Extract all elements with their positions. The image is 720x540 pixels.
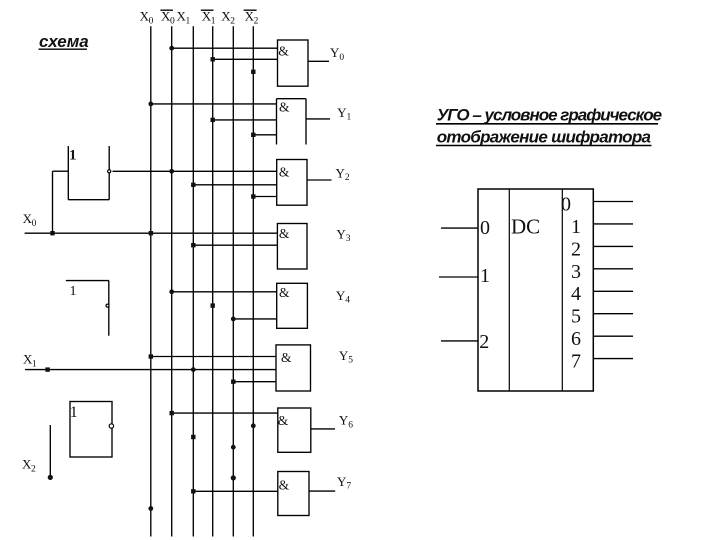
svg-text:3: 3 [346,234,351,244]
NOT gate DD2 output bubble [106,304,109,307]
svg-text:0: 0 [149,17,154,27]
wire Y3 input from X1 [193,244,277,246]
wire Y2 input from X1 [193,184,276,186]
label NOT X1 (bus) [202,9,216,27]
svg-text:1: 1 [186,17,191,27]
label X2 (bus) [221,9,235,27]
node Y1 input junction on X0 [148,102,153,107]
svg-text:1: 1 [480,265,490,287]
NOT gate DD2 label 1 [70,284,77,299]
wire Y0 output [308,60,329,62]
decoder output pin label 1 [571,216,581,238]
caption UGO line 2 [437,127,651,146]
wire X2 input vertical [49,425,51,477]
wire Y1 input from NOT-X1 [213,119,277,121]
wire Y5 input from X2 [233,381,276,383]
node dot on X1 at Y6 level [191,435,195,439]
svg-text:&: & [279,477,290,492]
svg-text:&: & [281,350,292,365]
wire X1 input horizontal [25,369,276,371]
bus wire NOT-X0 vertical [171,26,173,536]
AND gate Y4 symbol & [279,285,290,300]
AND gate Y1 symbol & [279,99,290,114]
NOT gate DD1 output bubble [108,170,111,173]
decoder output wire 2 [593,245,633,247]
svg-text:3: 3 [571,261,581,283]
decoder label DC [511,215,540,239]
node inverter3-NOTX2 bus dot [251,423,256,428]
decoder output wire 3 [593,268,633,270]
title "схема" [39,32,89,51]
label Y3 [336,227,350,245]
svg-text:УГО – условное графическое: УГО – условное графическое [437,106,662,125]
wire Y4 input from NOT-X0 [172,291,277,293]
svg-text:0: 0 [480,217,490,239]
wire Y1 output [306,118,330,120]
decoder output pin label 4 [571,283,581,305]
svg-text:&: & [278,413,289,428]
svg-text:1: 1 [211,17,216,27]
svg-text:0: 0 [339,53,344,63]
wire Y7 input from X1 [193,490,277,492]
wire inverter 1 input horizontal [53,170,69,172]
node Y1 input junction on NOT-X2 [251,133,255,137]
decoder output wire 0 [593,201,633,203]
AND gate Y2 symbol & [279,165,290,180]
AND gate Y2 box [277,160,307,206]
NOT gate DD3 output bubble [109,424,113,428]
node X1-bus junction [191,367,196,372]
svg-text:2: 2 [230,17,235,27]
label Y2 [336,166,350,184]
node Y5 input junction on X2 [231,380,235,384]
label Y0 [330,45,344,63]
node X2-bus dot [231,475,236,480]
svg-text:&: & [278,43,289,58]
svg-text:6: 6 [348,420,353,430]
bus wire X0 vertical [150,26,152,536]
decoder output wire 6 [593,335,633,337]
node dot on NOT-X2 at Y0 level [251,70,255,74]
decoder input pin label 1 [480,265,490,287]
node X2 input dot [48,475,53,480]
input label X2 [22,456,36,474]
label X1 (bus) [177,9,191,27]
node Y0 input junction on NOT-X0 [169,46,174,51]
svg-text:0: 0 [170,17,175,27]
AND gate Y6 box [278,408,311,452]
svg-text:&: & [279,285,290,300]
node Y6 input junction on NOT-X0 [170,411,174,415]
bus wire NOT-X2 vertical [252,26,254,536]
decoder input wire 1 [439,276,478,278]
decoder input pin label 0 [480,217,490,239]
decoder output pin label 7 [571,351,581,373]
AND gate Y5 box [276,345,311,391]
decoder output wire 4 [593,290,633,292]
node Y3 input junction on X1 [191,243,195,247]
AND gate Y3 symbol & [279,226,290,241]
decoder output pin label 3 [571,261,581,283]
svg-text:7: 7 [346,482,351,492]
overline of NOT X0 [160,9,173,11]
bus wire NOT-X1 vertical [212,26,214,536]
svg-text:схема: схема [39,32,89,51]
AND gate Y5 symbol & [281,350,292,365]
wire inverter 1 output to gate Y2 [113,170,277,172]
svg-text:2: 2 [571,238,581,260]
label NOT X2 (bus) [245,9,259,27]
AND gate Y4 box [277,283,308,328]
label NOT X0 (bus) [161,9,175,27]
wire Y1 input from X0 [151,103,277,105]
node Y4 input junction on NOT-X1 [211,303,215,307]
svg-text:1: 1 [347,113,352,123]
label X0 (bus) [140,9,154,27]
svg-text:DC: DC [511,215,540,239]
svg-text:2: 2 [254,17,259,27]
AND gate Y7 symbol & [279,477,290,492]
decoder input pin label 2 [479,331,489,353]
label Y1 [337,105,351,123]
overline of NOT X2 [244,9,257,11]
decoder input wire 0 [441,227,478,229]
wire Y2 output [307,179,332,181]
decoder DC outer box [478,189,593,391]
svg-text:4: 4 [345,296,350,306]
AND gate Y3 box [277,224,307,270]
node Y4 input junction on X2 [231,317,236,322]
svg-text:&: & [279,165,290,180]
decoder output wire 1 [593,223,633,225]
bus wire X2 vertical [232,26,234,536]
AND gate Y6 symbol & [278,413,289,428]
decoder input wire 2 [441,340,478,342]
svg-text:2: 2 [31,464,36,474]
wire X0 input horizontal [25,232,278,234]
title underline [39,48,88,50]
svg-text:отображение шифратора: отображение шифратора [437,127,651,146]
label Y7 [337,474,351,492]
node dot on X2 at Y6 level [231,445,236,450]
wire Y4 input from X2 [233,318,276,320]
node inverter1-NOTX0 bus junction [169,169,174,174]
label Y4 [336,288,350,306]
svg-text:1: 1 [69,148,77,164]
node Y4 input junction on NOT-X0 [169,289,174,294]
svg-text:&: & [279,99,290,114]
decoder output pin label 2 [571,238,581,260]
node X0-bus junction [149,231,153,235]
NOT gate DD2 (1) partial box [66,281,109,336]
svg-text:5: 5 [348,356,353,366]
bus wire X1 vertical [192,26,194,536]
wire Y1 input from NOT-X2 [253,134,276,136]
AND gate Y7 box [278,472,309,516]
NOT gate DD3 (1) box [70,402,112,458]
NOT gate DD1 label 1 [69,148,77,164]
node Y5 input junction on X0 [149,354,153,358]
node Y0 input junction on NOT-X1 [211,57,215,61]
decoder output wire 7 [593,358,633,360]
svg-text:1: 1 [70,284,77,299]
svg-text:1: 1 [70,404,78,421]
input label X0 [23,211,37,229]
node Y2 input junction on X1 [191,183,195,187]
node X1 input dot [45,367,49,371]
decoder output pin label 5 [571,306,581,328]
wire Y6 input from NOT-X0 [172,412,278,414]
AND gate Y0 symbol & [278,43,289,58]
wire Y0 input from NOT-X0 [172,47,278,49]
svg-text:7: 7 [571,351,581,373]
svg-text:0: 0 [32,219,37,229]
svg-text:6: 6 [571,328,581,350]
decoder output pin label 6 [571,328,581,350]
NOT gate DD3 label 1 [70,404,78,421]
svg-text:2: 2 [479,331,489,353]
svg-text:4: 4 [571,283,581,305]
caption underline 2 [436,145,652,147]
wire Y5 input from X0 [151,356,276,358]
AND gate Y0 box [278,40,309,86]
svg-text:1: 1 [32,360,37,370]
overline of NOT X1 [201,9,214,11]
AND gate Y1 box (open bottom) [277,99,307,145]
NOT gate DD1 (1) open-top box [68,146,109,200]
wire Y0 input from NOT-X1 [213,58,278,60]
label Y5 [339,348,353,366]
label Y6 [339,413,353,431]
caption underline 1 [436,123,658,125]
wire Y7 output [309,490,335,492]
decoder output wire 5 [593,313,633,315]
decoder DC divider 1 [508,189,510,391]
svg-text:1: 1 [571,216,581,238]
node Y7 input junction on X1 [191,489,195,493]
decoder output pin label 0 [561,193,571,215]
decoder DC divider 2 [561,189,563,391]
svg-text:0: 0 [561,193,571,215]
svg-text:5: 5 [571,306,581,328]
caption UGO line 1 [437,106,662,125]
wire Y6 output [311,428,335,430]
node Y2 input junction on NOT-X2 [251,194,255,198]
wire X0 to inverter 1 vertical [52,171,54,233]
wire Y2 input from NOT-X2 [253,196,276,198]
node Y1 input junction on NOT-X1 [211,118,215,122]
node X0-branch junction [50,231,54,235]
svg-text:&: & [279,226,290,241]
node dot on X0 at Y7 level [148,506,153,511]
input label X1 [23,352,37,370]
svg-text:2: 2 [345,173,350,183]
